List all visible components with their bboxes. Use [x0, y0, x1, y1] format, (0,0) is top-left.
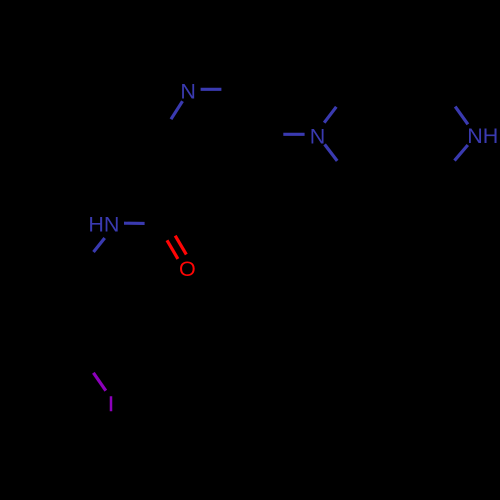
svg-text:N: N [180, 80, 196, 104]
svg-text:NH: NH [467, 124, 498, 148]
wire: phenyl C to iodine half-bond [93, 373, 105, 391]
wire: amine N upper-right half-bond [324, 107, 336, 123]
svg-text:N: N [310, 125, 326, 149]
wire: NH lower-left half-bond [455, 145, 468, 161]
wire: methyl to amine N half-bond [283, 133, 304, 136]
wire: C=O double bond inner half [167, 240, 178, 259]
wire: pyridine N to C2 half-bond [201, 88, 222, 91]
svg-text:O: O [179, 257, 196, 281]
wire: amide N to phenyl half-bond [94, 238, 105, 252]
svg-text:HN: HN [88, 213, 119, 237]
wire: amide N to carbonyl C half-bond [124, 222, 145, 225]
svg-text:I: I [108, 392, 114, 416]
wire: NH upper-left half-bond [455, 107, 468, 125]
wire: C=O double bond outer half [175, 236, 186, 255]
wire: amine N lower-right half-bond [325, 144, 338, 161]
wire: pyridine N to C6 half-bond [171, 101, 183, 119]
